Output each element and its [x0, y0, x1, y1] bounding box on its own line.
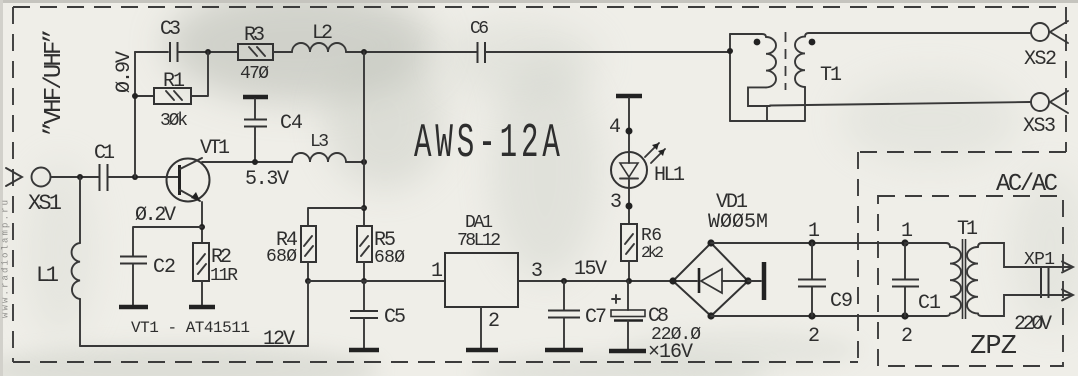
- svg-text:15V: 15V: [574, 258, 607, 281]
- svg-text:Ø.9V: Ø.9V: [113, 51, 136, 93]
- ground: under C8: [609, 349, 646, 354]
- svg-text:3: 3: [610, 191, 622, 214]
- svg-text:R6: R6: [641, 226, 662, 246]
- wire: 12V bottom rail: [80, 345, 308, 347]
- svg-text:-: -: [478, 117, 496, 171]
- wire: T1 secondary to XS2: [809, 32, 1030, 34]
- transformer T1 (RF balun): [730, 32, 809, 121]
- capacitor C4 with terminal bar: [243, 97, 268, 162]
- capacitor C8 (electrolytic): [611, 281, 645, 349]
- node: junction top wire / C4-L3 vertical: [361, 49, 367, 55]
- resistor R6: [621, 224, 637, 261]
- wire: emitter vertical to R2: [201, 202, 203, 243]
- svg-text:68Ø: 68Ø: [266, 247, 297, 267]
- connector XS1: [6, 168, 51, 187]
- node: bridge left vertex: [669, 277, 676, 284]
- svg-text:C1: C1: [94, 142, 115, 165]
- svg-text:XS1: XS1: [28, 191, 62, 216]
- wire: HL1 to R6: [628, 188, 630, 224]
- svg-text:WØØ5M: WØØ5M: [708, 211, 768, 234]
- node 2 (C9 bottom): [808, 312, 815, 319]
- wire: DC top rail: [711, 242, 946, 244]
- inductor L2: [292, 43, 346, 52]
- svg-text:S: S: [457, 117, 475, 171]
- svg-text:C3: C3: [160, 18, 181, 41]
- svg-text:C4: C4: [280, 112, 303, 135]
- connector XS3: [1031, 91, 1068, 113]
- svg-text:T1: T1: [820, 64, 842, 87]
- node: junction collector wire / C4: [252, 159, 258, 165]
- terminal bar right of bridge: [762, 262, 767, 300]
- svg-text:2: 2: [521, 117, 539, 171]
- wire: collector to L3: [202, 161, 292, 163]
- svg-text:L3: L3: [310, 132, 329, 152]
- node: junction R1 left: [132, 93, 138, 99]
- svg-text:1: 1: [901, 220, 913, 243]
- node 4: [626, 128, 633, 135]
- wire: XS1 to C1: [51, 176, 99, 178]
- wire: R5 bottom lead: [363, 262, 365, 281]
- node: junction C7: [561, 278, 567, 284]
- plug XP1: [1038, 262, 1073, 301]
- wire: DC bottom rail: [711, 315, 946, 317]
- capacitor C3: [170, 42, 178, 62]
- svg-text:AC/AC: AC/AC: [996, 171, 1058, 198]
- capacitor C9: [798, 243, 826, 316]
- svg-text:A: A: [542, 117, 560, 171]
- node: junction top wire / R1 right: [205, 49, 211, 55]
- svg-text:A: A: [414, 117, 432, 171]
- svg-text:3: 3: [531, 260, 543, 283]
- svg-text:VT1 - AT41511: VT1 - AT41511: [131, 319, 250, 337]
- wire: top wire left segment: [135, 51, 168, 53]
- svg-text:2: 2: [488, 310, 500, 333]
- resistor R2: [193, 243, 209, 305]
- wire: T1 to XS3: [770, 102, 1030, 106]
- svg-text:47Ø: 47Ø: [240, 64, 269, 84]
- svg-text:R3: R3: [244, 24, 265, 47]
- capacitor C2: [120, 257, 147, 306]
- ground: under R2: [189, 305, 215, 310]
- diode bridge VD1 W005M: [673, 243, 748, 316]
- wire: vertical top wire to R5: [363, 52, 365, 226]
- svg-text:C7: C7: [585, 306, 607, 329]
- node: junction base/R1 vertical: [132, 174, 138, 180]
- svg-text:L2: L2: [312, 22, 333, 45]
- svg-text:3Øk: 3Øk: [160, 111, 188, 131]
- wire: L1 branch vertical: [79, 177, 81, 346]
- svg-text:DA1: DA1: [465, 213, 493, 233]
- wire: R3 to L2: [273, 51, 292, 53]
- node: junction R4 bracket: [361, 205, 367, 211]
- capacitor C1 (AC block): [892, 243, 919, 316]
- wire: R1 left lead: [135, 95, 154, 97]
- wire: C6 to T1: [486, 51, 730, 53]
- svg-text:VT1: VT1: [200, 137, 230, 160]
- capacitor C5: [350, 281, 378, 348]
- wire: base wire to VT1: [108, 176, 179, 178]
- svg-text:2: 2: [808, 325, 820, 348]
- svg-text:1: 1: [808, 220, 820, 243]
- svg-text:C1: C1: [918, 292, 941, 315]
- svg-text:2: 2: [901, 325, 913, 348]
- wire: mid wire to DA1 pin 1: [308, 280, 445, 282]
- wire: R4 bottom lead: [307, 262, 309, 281]
- node: junction emitter / 0.2V wire: [199, 224, 205, 230]
- node: bridge bottom vertex: [707, 312, 714, 319]
- inductor L1: [72, 243, 80, 299]
- ground: under DA1 pin 2: [466, 348, 498, 353]
- svg-text:C9: C9: [830, 290, 853, 313]
- ground: under C2: [119, 305, 148, 310]
- svg-text:W: W: [435, 117, 453, 171]
- svg-text:×16V: ×16V: [648, 341, 693, 364]
- wire: L3 to junction: [346, 161, 364, 163]
- node: T1 input junction: [727, 48, 733, 54]
- svg-text:L1: L1: [36, 263, 59, 288]
- transformer T1 (AC mains): [905, 239, 1038, 319]
- svg-text:2k2: 2k2: [641, 244, 664, 262]
- transistor VT1: [167, 158, 210, 202]
- node: bridge right vertex: [744, 277, 751, 284]
- wire: C3 to R3: [179, 51, 238, 53]
- wire: bridge right to terminal bar: [748, 280, 761, 282]
- svg-text:”VHF/UHF”: ”VHF/UHF”: [41, 29, 68, 136]
- ground: under C7: [545, 348, 583, 353]
- node: bridge top vertex: [707, 239, 714, 246]
- resistor R1: [154, 88, 191, 104]
- terminal bar above HL1: [616, 94, 642, 99]
- resistor R3: [238, 44, 273, 60]
- svg-text:22ØV: 22ØV: [1014, 313, 1052, 336]
- svg-text:T1: T1: [957, 218, 978, 241]
- wire: L2 to C6: [346, 51, 477, 53]
- node: junction R5 / C5: [361, 278, 367, 284]
- node 1 (C9 top): [808, 239, 815, 246]
- svg-text:Ø.2V: Ø.2V: [135, 204, 176, 227]
- node: junction R6 / C8: [626, 278, 632, 284]
- wire: R1 right vertical: [191, 52, 208, 96]
- svg-text:78L12: 78L12: [457, 231, 501, 251]
- enclosure: AC/AC adapter dashed border: [878, 196, 1063, 366]
- svg-text:XS3: XS3: [1023, 115, 1056, 138]
- LED HL1: [611, 143, 665, 188]
- node: junction R4 / 12V rail: [305, 278, 311, 284]
- svg-text:1: 1: [431, 260, 443, 283]
- wire: DA1 pin 3 output to bridge: [518, 280, 673, 282]
- capacitor C1: [100, 164, 108, 191]
- ground: under C5: [349, 348, 379, 353]
- wire: DA1 pin 2 to ground: [480, 307, 482, 348]
- capacitor C6: [478, 42, 486, 63]
- polarity dot: T1 secondary: [809, 39, 816, 46]
- wire: 12V rail vertical: [307, 281, 309, 346]
- wire: bracket to R4: [308, 208, 364, 226]
- capacitor C7: [548, 281, 580, 348]
- IC DA1 78L12: [445, 253, 518, 307]
- svg-text:11R: 11R: [210, 266, 238, 286]
- svg-text:C5: C5: [384, 306, 406, 329]
- node: junction XS1/L1: [77, 174, 83, 180]
- svg-text:R1: R1: [163, 70, 185, 93]
- svg-text:C2: C2: [153, 256, 176, 279]
- wire: bar to HL1: [628, 98, 630, 152]
- svg-text:4: 4: [609, 116, 621, 139]
- node 3: [626, 203, 633, 210]
- node 2 (AC block): [901, 312, 908, 319]
- wire: 0.2V wire to C2: [133, 227, 202, 256]
- svg-text:XP1: XP1: [1024, 250, 1055, 270]
- svg-text:ZPZ: ZPZ: [970, 332, 1017, 362]
- svg-text:C6: C6: [470, 19, 489, 39]
- wire: R6 bottom lead: [628, 261, 630, 281]
- svg-text:HL1: HL1: [654, 164, 685, 187]
- svg-text:12V: 12V: [263, 328, 295, 351]
- node 1 (AC block): [901, 239, 908, 246]
- connector XS2: [1031, 21, 1068, 43]
- wire: 0.9V vertical (C3/R1 to base): [134, 52, 136, 177]
- svg-text:XS2: XS2: [1024, 48, 1057, 71]
- svg-text:1: 1: [500, 117, 517, 171]
- polarity dot: T1 primary: [754, 39, 761, 46]
- svg-text:5.3V: 5.3V: [245, 168, 289, 191]
- resistor R5: [357, 226, 372, 262]
- resistor R4: [301, 226, 316, 262]
- svg-text:68Ø: 68Ø: [374, 248, 405, 268]
- inductor L3: [292, 153, 346, 162]
- node: junction L3 / vertical: [361, 159, 367, 165]
